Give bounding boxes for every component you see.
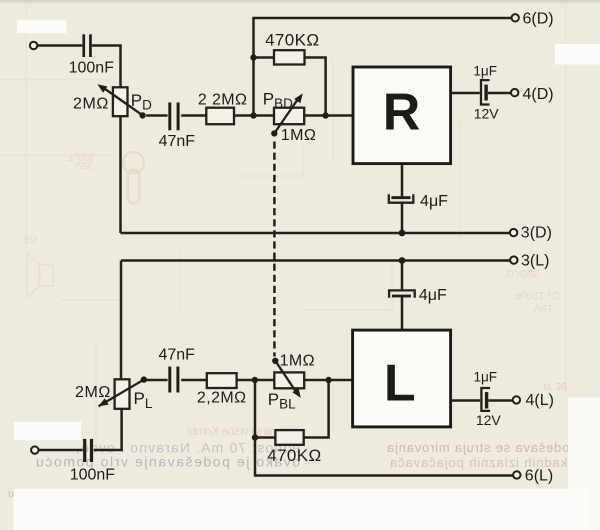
svg-text:100nF: 100nF [70, 466, 116, 483]
svg-text:1MΩ: 1MΩ [280, 353, 315, 370]
svg-text:4μF: 4μF [420, 193, 448, 210]
svg-text:12V: 12V [476, 412, 502, 428]
svg-text:6(L): 6(L) [525, 468, 553, 485]
svg-text:2MΩ: 2MΩ [73, 96, 109, 113]
svg-text:2MΩ: 2MΩ [75, 384, 111, 401]
svg-text:5Ω: 5Ω [24, 235, 38, 246]
svg-text:kaskadnih izlaznih pojačavača: kaskadnih izlaznih pojačavača [389, 455, 590, 470]
svg-text:1MΩ: 1MΩ [281, 127, 316, 144]
svg-text:R: R [383, 83, 421, 141]
svg-text:3(D): 3(D) [521, 225, 552, 242]
svg-text:4(D): 4(D) [523, 86, 554, 103]
svg-text:12V: 12V [474, 106, 500, 122]
svg-text:47nF: 47nF [159, 133, 196, 150]
svg-text:2,2MΩ: 2,2MΩ [197, 390, 247, 407]
svg-text:u: u [8, 488, 14, 500]
svg-text:L: L [384, 354, 416, 412]
svg-text:47nF: 47nF [158, 347, 195, 364]
svg-text:4μF: 4μF [419, 287, 447, 304]
svg-text:2 2MΩ: 2 2MΩ [198, 91, 248, 108]
svg-text:3(L): 3(L) [521, 252, 549, 269]
svg-text:6(D): 6(D) [523, 10, 554, 27]
svg-text:470KΩ: 470KΩ [267, 446, 321, 465]
svg-text:25V: 25V [75, 159, 93, 170]
svg-text:C₄ 120μF: C₄ 120μF [513, 289, 560, 301]
svg-text:1μF: 1μF [473, 64, 497, 79]
svg-text:100nF: 100nF [69, 59, 115, 76]
svg-text:P₂ podešava se struja mirovanj: P₂ podešava se struja mirovanja [386, 440, 597, 455]
svg-text:4(L): 4(L) [526, 392, 554, 409]
svg-text:1μF: 1μF [474, 369, 498, 384]
svg-text:470KΩ: 470KΩ [265, 30, 319, 49]
svg-text:15V: 15V [533, 302, 553, 314]
